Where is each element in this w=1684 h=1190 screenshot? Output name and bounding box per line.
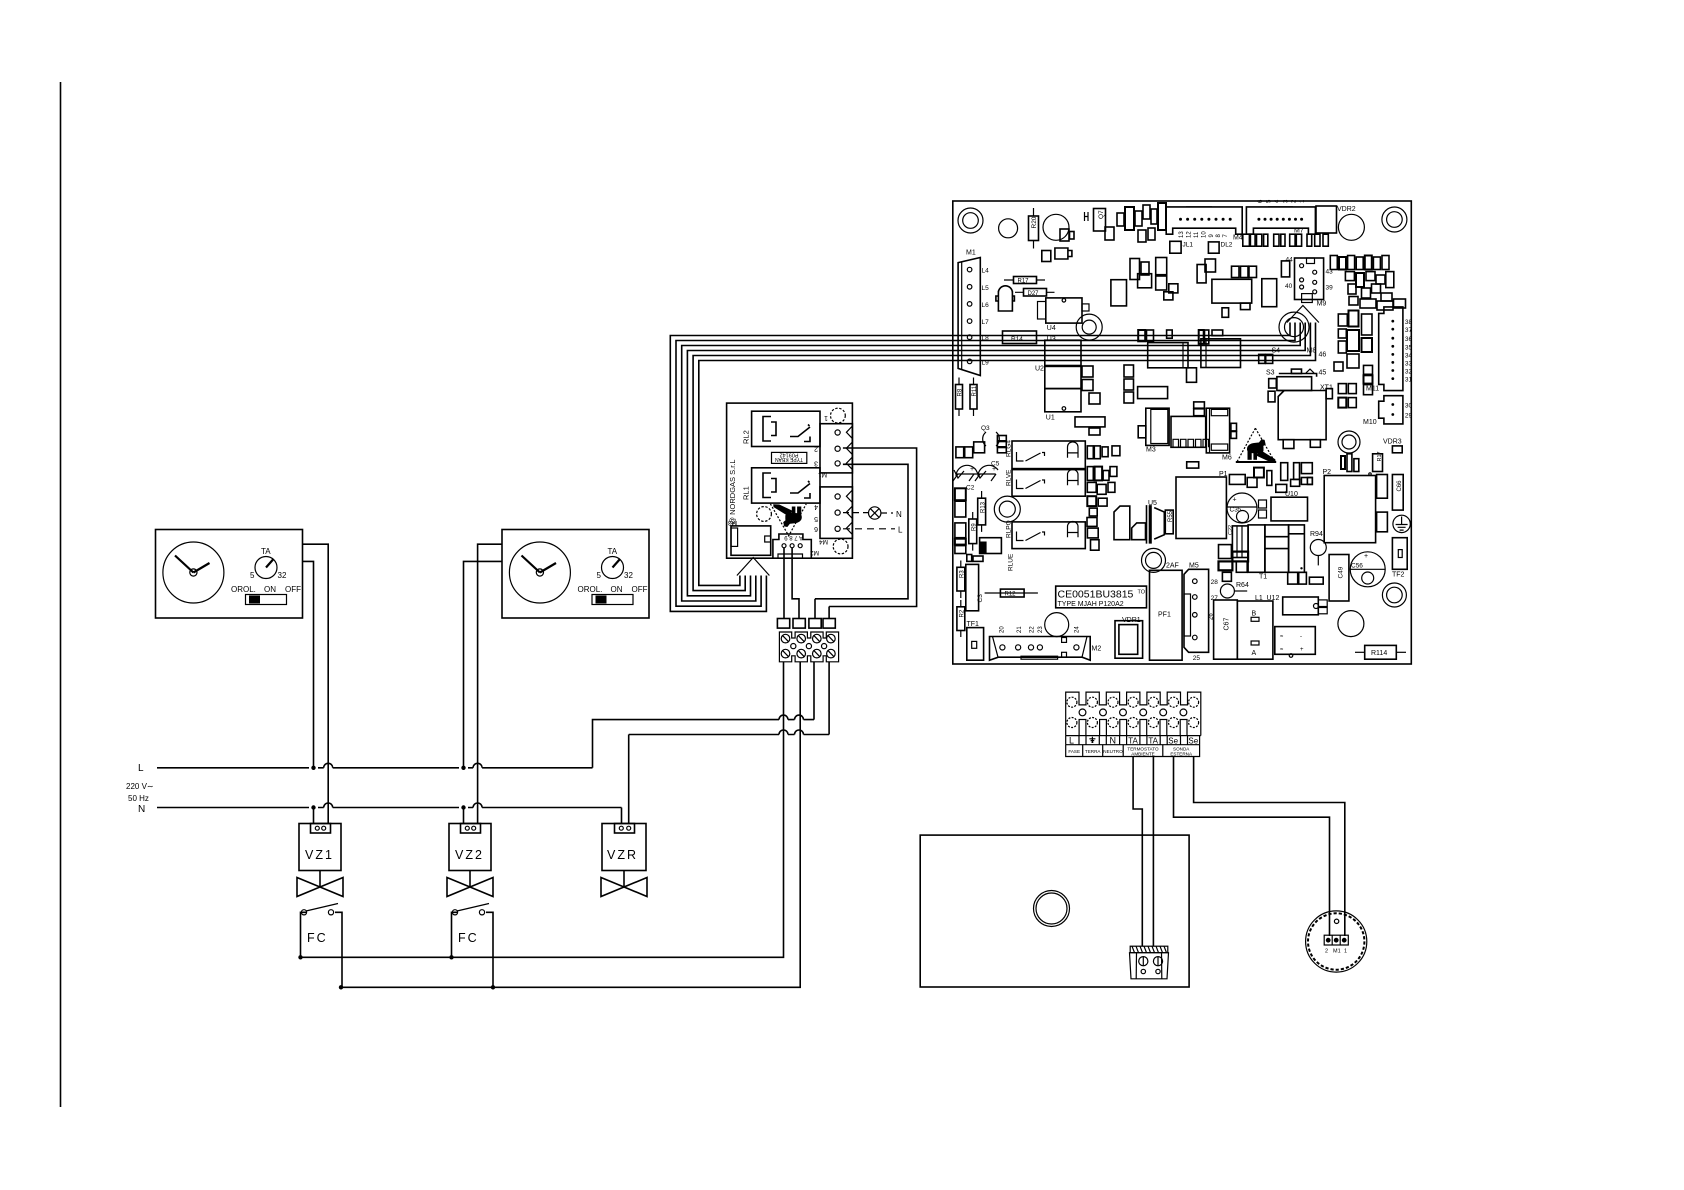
svg-text:VDR3: VDR3 (1383, 439, 1402, 446)
svg-text:U4: U4 (1047, 325, 1056, 332)
svg-text:C67: C67 (1224, 618, 1231, 631)
terminal block M1 upper (1,2,3) (820, 424, 852, 473)
svg-text:C5: C5 (991, 461, 1000, 468)
svg-text:N: N (1110, 736, 1117, 746)
connector M2 (bottom, pins A789) (773, 534, 811, 558)
FC2 right pin drop (492, 957, 494, 987)
svg-text:1: 1 (1300, 199, 1306, 203)
svg-text:OROL.: OROL. (578, 585, 603, 594)
svg-text:+: + (1364, 553, 1368, 560)
svg-text:24: 24 (1074, 626, 1080, 633)
svg-text:RL1: RL1 (742, 486, 751, 500)
line2 VZR feed from block pos4 (629, 662, 829, 824)
R3 (957, 567, 965, 591)
hump L over x=328.2 (324, 763, 333, 768)
svg-text:C3: C3 (977, 594, 984, 603)
svg-text:C22: C22 (1228, 525, 1234, 535)
PF1 (1150, 570, 1183, 660)
svg-text:T1: T1 (1259, 574, 1267, 581)
valve VZ2 (449, 824, 491, 871)
svg-text:S3: S3 (1266, 370, 1275, 377)
svg-text:TA: TA (1128, 736, 1138, 745)
top mid-right scattered parts (1105, 203, 1406, 371)
limit switch FC1 (301, 912, 343, 957)
clock1 wire lower (to L line) (303, 561, 314, 767)
small parts right of relays (1087, 446, 1120, 550)
R8 (956, 385, 963, 410)
svg-text:PF1: PF1 (1158, 612, 1171, 619)
letter band (1066, 735, 1201, 737)
svg-text:M6: M6 (1222, 455, 1232, 462)
svg-text:2: 2 (1325, 949, 1328, 955)
relay board outline (727, 403, 853, 558)
relay RLVE (1012, 470, 1085, 497)
mid block with teeth (1171, 416, 1206, 447)
svg-text:C2: C2 (966, 485, 975, 492)
svg-text:34: 34 (1405, 352, 1413, 359)
C66 (1392, 475, 1403, 511)
svg-text:6: 6 (1258, 199, 1264, 203)
svg-text:31: 31 (1405, 377, 1413, 384)
svg-text:M8: M8 (1307, 348, 1317, 355)
svg-text:R14: R14 (1011, 336, 1023, 343)
strip outline comb (1066, 692, 1201, 736)
svg-text:37: 37 (1405, 327, 1413, 334)
FC1 right pin drop (341, 957, 343, 987)
S3 line with parts (1279, 374, 1317, 377)
svg-text:23: 23 (1038, 626, 1044, 633)
svg-text:30: 30 (1405, 403, 1413, 410)
connector M3 (bottom left) (731, 526, 771, 555)
svg-text:P1: P1 (1219, 471, 1228, 478)
hump line1 over wire x=799 (795, 715, 804, 720)
svg-text:M4: M4 (819, 538, 828, 545)
scattered above P1/P2 (1229, 463, 1312, 493)
D27 (1024, 289, 1047, 297)
limit switch FC2 (452, 912, 494, 957)
wire Se2 to sensor (1194, 757, 1345, 937)
svg-text:ON: ON (611, 585, 623, 594)
svg-text:21: 21 (1017, 626, 1023, 633)
small squares pairs mid-right (1338, 365, 1372, 407)
description band (1066, 745, 1200, 757)
svg-text:L4: L4 (982, 268, 990, 275)
C3 (966, 564, 979, 610)
hump N over x=477.6 (473, 803, 482, 808)
svg-text:≈: ≈ (1280, 634, 1284, 640)
M6 block (1206, 408, 1229, 453)
mounting holes (958, 207, 1407, 637)
svg-text:@ NORDGAS S.r.L: @ NORDGAS S.r.L (728, 459, 737, 524)
svg-text:20: 20 (999, 626, 1005, 633)
middle small holes (1079, 709, 1086, 716)
bundle roof triangle (737, 558, 770, 576)
hump N over x=328.2 (324, 803, 333, 808)
dark cluster below T1-left (1219, 545, 1249, 582)
svg-text:12: 12 (1187, 231, 1193, 238)
DL2 (1208, 242, 1219, 253)
svg-text:OFF: OFF (632, 585, 648, 594)
svg-text:ON: ON (264, 585, 276, 594)
svg-text:L: L (898, 526, 903, 535)
connector M4 (top) (1166, 207, 1242, 234)
svg-text:L7: L7 (982, 319, 990, 326)
wire B FC right pins to block pos2 (341, 662, 800, 987)
svg-text:R55: R55 (1168, 510, 1174, 522)
hump line2 over wire x=783.5 (779, 730, 788, 735)
R12 (985, 592, 1038, 594)
svg-text:27: 27 (1211, 595, 1219, 602)
connector M1 (left edge) (958, 258, 980, 376)
connector M10 (1379, 396, 1403, 424)
bridge rectifier (1275, 627, 1316, 655)
svg-text:6: 6 (814, 525, 818, 532)
svg-text:VZR: VZR (607, 848, 638, 862)
svg-text:M2: M2 (810, 549, 819, 556)
svg-text:5: 5 (1266, 199, 1272, 203)
svg-text:TF2: TF2 (1392, 572, 1405, 579)
svg-text:M5: M5 (1189, 562, 1199, 569)
svg-text:3: 3 (814, 460, 818, 467)
svg-text:1: 1 (1344, 949, 1347, 955)
wire end ferrules (777, 619, 789, 629)
svg-text:32: 32 (1405, 369, 1413, 376)
svg-text:TA: TA (261, 547, 271, 556)
junction dot L/VZ2 (461, 766, 465, 770)
svg-text:R20: R20 (1031, 216, 1038, 228)
clock2 wire lower (to L line) (464, 561, 503, 767)
C56 (1350, 552, 1385, 587)
top screws (1067, 697, 1199, 735)
timer clock box 1 (156, 530, 303, 619)
svg-text:+: + (970, 466, 974, 473)
svg-text:28: 28 (1211, 579, 1219, 586)
P2 (1324, 476, 1375, 543)
svg-text:8: 8 (1216, 234, 1222, 238)
svg-text:TA: TA (608, 547, 618, 556)
svg-text:40: 40 (1285, 283, 1293, 290)
R17 (1014, 277, 1037, 284)
clock 1 dial (163, 542, 224, 603)
svg-text:RL2: RL2 (742, 430, 751, 444)
connector M11 (right) (1379, 307, 1403, 391)
svg-text:VDR2: VDR2 (1337, 206, 1356, 213)
small parts top-left (1085, 212, 1089, 221)
svg-text:L: L (138, 763, 144, 774)
svg-text:OFF: OFF (285, 585, 301, 594)
svg-text:38: 38 (1405, 319, 1413, 326)
timer clock box 2 (502, 530, 649, 619)
svg-text:A: A (1252, 650, 1257, 657)
svg-text:32: 32 (278, 571, 287, 580)
room thermostat terminal in boiler (1130, 946, 1169, 979)
connector M9 (1295, 258, 1324, 300)
R20 (1029, 216, 1039, 241)
C49 (1329, 555, 1349, 602)
svg-text:RLPO: RLPO (1006, 520, 1013, 538)
transformer blocks over bundle (1148, 343, 1188, 368)
svg-text:2: 2 (814, 445, 818, 452)
wire TA2 to room stat (1152, 757, 1154, 947)
relay RL2 (752, 411, 820, 446)
C5 C2 arcs (954, 465, 998, 478)
svg-text:R17: R17 (1377, 451, 1383, 461)
clock2 wire upper (to VZ2 right pin) (478, 544, 502, 823)
svg-text:S4: S4 (1272, 348, 1281, 355)
svg-text:VZ2: VZ2 (455, 848, 484, 862)
svg-text:29: 29 (1405, 413, 1413, 420)
svg-text:Se: Se (1168, 736, 1178, 745)
C35 (1227, 493, 1257, 523)
R9 (969, 519, 977, 544)
hump line1 over wire x=783.5 (779, 715, 788, 720)
svg-text:7: 7 (1223, 234, 1229, 238)
VZ1 N pin wire (313, 808, 315, 824)
PCB outline (953, 201, 1412, 664)
svg-text:4: 4 (814, 503, 818, 510)
svg-text:M4: M4 (1233, 235, 1243, 242)
pad row under top connectors (1243, 234, 1329, 246)
svg-text:5: 5 (250, 571, 255, 580)
relay RLG4 (1012, 441, 1085, 469)
svg-text:M1: M1 (1333, 949, 1341, 955)
wire relay terminal 3 to ferrule3 (815, 464, 908, 599)
connector M2 (pcb bottom) (989, 637, 1090, 661)
svg-text:-: - (1300, 634, 1302, 640)
wire L line (157, 767, 593, 769)
svg-text:C66: C66 (1397, 480, 1403, 492)
page border (60, 82, 62, 1107)
svg-text:TA: TA (1148, 736, 1158, 745)
R11 (970, 385, 977, 410)
svg-text:1: 1 (824, 414, 828, 421)
svg-text:33: 33 (1405, 360, 1413, 367)
mounting hole bottom (833, 539, 848, 554)
svg-text:R114: R114 (1371, 650, 1387, 657)
terminal block M4 lower (4,5,6) (820, 487, 852, 539)
bevel rects left of U5 (1114, 506, 1130, 540)
svg-text:TYPE KBAN: TYPE KBAN (775, 456, 803, 462)
wire N line (157, 808, 622, 824)
wire TA1 to room stat (1133, 757, 1142, 947)
svg-text:RLVE: RLVE (1006, 469, 1013, 486)
svg-text:N: N (896, 510, 902, 519)
TA dial 1 (255, 557, 277, 579)
connector M7 (top) (1246, 207, 1315, 234)
small rect pair on bundle (1259, 354, 1265, 363)
R114 (1355, 651, 1365, 653)
svg-text:5: 5 (597, 571, 602, 580)
svg-text:Q7: Q7 (1098, 210, 1105, 219)
svg-text:M9: M9 (1317, 301, 1327, 308)
svg-text:11: 11 (1194, 231, 1200, 238)
svg-text:Se: Se (1188, 736, 1198, 745)
svg-text:U1: U1 (1046, 415, 1055, 422)
ferrule3 drop (814, 599, 816, 619)
svg-text:Q3: Q3 (981, 425, 990, 432)
svg-text:M3: M3 (1146, 447, 1156, 454)
lamp symbol with dashed N/L (843, 512, 869, 514)
mounting hole top right (831, 408, 846, 423)
svg-text:A 7 8 9: A 7 8 9 (784, 534, 803, 540)
svg-text:46: 46 (1319, 352, 1327, 359)
svg-text:R12: R12 (1005, 591, 1017, 597)
M3 block (1146, 408, 1169, 445)
svg-text:2AF: 2AF (1166, 563, 1179, 570)
warning triangle with ESD hand (rotated) (770, 504, 806, 536)
svg-text:R3: R3 (960, 570, 966, 578)
relay RLPO (1012, 522, 1085, 549)
svg-text:+: + (1233, 497, 1237, 504)
svg-text:TERRA: TERRA (1085, 749, 1102, 754)
svg-text:TYPE MJAH P120A2: TYPE MJAH P120A2 (1058, 601, 1124, 608)
svg-text:L5: L5 (982, 285, 990, 292)
CE label box (1056, 586, 1147, 608)
TA dial 2 (602, 557, 624, 579)
svg-text:2: 2 (1292, 199, 1298, 203)
svg-text:U2: U2 (1035, 365, 1044, 372)
left column parts (955, 436, 1006, 562)
svg-text:AMBIENTE: AMBIENTE (1131, 752, 1154, 757)
U2 (1045, 340, 1081, 365)
svg-text:+: + (1300, 647, 1304, 653)
wire M2 pin1 down (783, 548, 785, 619)
P1 (1176, 477, 1226, 539)
svg-text:220 V∼: 220 V∼ (126, 782, 154, 791)
clock1 wire upper (to VZ1 right pin) (303, 544, 329, 823)
R13 (978, 498, 986, 525)
svg-text:M1: M1 (818, 471, 827, 478)
hump line2 over wire x=799 (795, 730, 804, 735)
svg-text:R9: R9 (972, 523, 978, 531)
svg-text:R17: R17 (1018, 279, 1030, 285)
hump L over x=477.6 (473, 763, 482, 768)
junction dots FC (298, 955, 302, 959)
U1 (two stacked) (1045, 366, 1081, 388)
svg-text:C49: C49 (1338, 566, 1345, 578)
svg-text:VZ1: VZ1 (305, 848, 334, 862)
ESD triangle (1237, 428, 1275, 461)
svg-text:35: 35 (1405, 344, 1413, 351)
bundle wires inside PCB to M8 (953, 323, 1316, 361)
svg-text:M1: M1 (966, 250, 976, 257)
component with tab near 1042,251 (1042, 248, 1072, 262)
svg-text:13: 13 (1179, 231, 1185, 238)
svg-text:R13: R13 (981, 501, 987, 513)
svg-text:3: 3 (1283, 199, 1289, 203)
slots between bottom screws (1079, 720, 1086, 736)
valve VZ1 (299, 824, 341, 871)
svg-text:P2: P2 (1323, 469, 1332, 476)
svg-text:FC: FC (458, 931, 479, 945)
clock 2 dial (509, 542, 570, 603)
svg-text:45: 45 (1319, 370, 1327, 377)
R14 (1003, 331, 1037, 344)
R17b (1373, 454, 1383, 472)
U4 (1046, 298, 1082, 323)
relay RL1 (752, 468, 820, 503)
connector M5 (1184, 569, 1209, 652)
svg-text:R8: R8 (958, 388, 964, 396)
TF2 (1392, 538, 1407, 570)
svg-text:5: 5 (814, 515, 818, 522)
4-pole screw terminal block (779, 632, 838, 662)
small rects right of U1 (1075, 365, 1168, 435)
wire A FC left pins to block pos1 (301, 662, 784, 957)
boiler outline box (920, 835, 1189, 987)
svg-text:TO: TO (1138, 590, 1146, 596)
valve VZR (602, 824, 646, 871)
svg-text:L6: L6 (982, 302, 990, 309)
svg-text:36: 36 (1405, 336, 1413, 343)
C67 (1214, 600, 1238, 659)
Q7 (1094, 209, 1106, 232)
L feed line continue with humps over block wires 1,2 then to block pos3 (788, 662, 814, 720)
svg-text:R64: R64 (1236, 582, 1249, 589)
svg-text:NEUTRO: NEUTRO (1103, 749, 1123, 754)
svg-text:≈: ≈ (1280, 647, 1284, 653)
wire relay terminal 2 to ferrule4 (829, 448, 917, 607)
R55 (1165, 510, 1173, 534)
small cap pair near 998,291 (996, 286, 1015, 311)
svg-text:B: B (1252, 611, 1257, 618)
boiler knockout circle (1034, 891, 1070, 927)
T1 transformer (1248, 525, 1304, 572)
svg-text:CE0051BU3815: CE0051BU3815 (1058, 589, 1134, 601)
wire Se1 to sensor (1174, 757, 1330, 937)
svg-text:50 Hz: 50 Hz (128, 794, 149, 803)
JL1 (1170, 241, 1181, 253)
svg-text:39: 39 (1326, 285, 1334, 292)
type label box (rotated text) (772, 452, 807, 463)
junction dot N/VZ1 (311, 805, 315, 809)
component black-edge (980, 538, 1002, 554)
svg-text:M10: M10 (1363, 419, 1377, 426)
earth ground symbol (1393, 515, 1410, 532)
svg-text:10: 10 (1202, 231, 1208, 238)
L jog up to terminal line (593, 720, 780, 768)
VZ2 N pin wire (463, 808, 465, 824)
svg-text:OROL.: OROL. (231, 585, 256, 594)
svg-text:L: L (1069, 736, 1074, 746)
svg-text:32: 32 (624, 571, 633, 580)
bottom screws (1067, 718, 1077, 728)
svg-text:XT1: XT1 (1320, 385, 1333, 392)
svg-text:N: N (138, 804, 145, 815)
svg-text:C35: C35 (1230, 507, 1242, 514)
XT1 (1277, 377, 1312, 391)
svg-text:R94: R94 (1310, 531, 1323, 538)
svg-text:9: 9 (1209, 234, 1215, 238)
U12 rect (1283, 597, 1319, 615)
svg-text:JL1: JL1 (1183, 242, 1194, 249)
M8 roof triangle (1287, 306, 1319, 323)
ferrule4 drop (828, 607, 830, 619)
svg-text:C56: C56 (1351, 563, 1363, 570)
svg-text:D27: D27 (1028, 291, 1040, 297)
svg-text:FASE: FASE (1068, 749, 1080, 754)
external sensor (1306, 911, 1367, 972)
wire M2 pin2 down with jog (792, 548, 799, 619)
R2 (957, 607, 965, 631)
svg-text:M3: M3 (728, 519, 737, 526)
svg-text:DL2: DL2 (1221, 242, 1233, 249)
svg-text:R2: R2 (960, 609, 966, 617)
svg-text:22: 22 (1030, 626, 1036, 633)
svg-text:R11: R11 (972, 385, 978, 396)
junction dot N/VZ2 (461, 805, 465, 809)
svg-text:RLUE: RLUE (1008, 553, 1015, 571)
